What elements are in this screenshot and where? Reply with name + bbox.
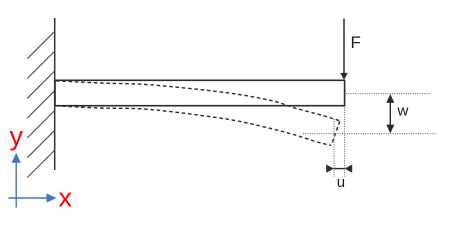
deflected beam bottom edge (dashed curve) xyxy=(56,106,331,146)
wall hatching (7 diagonal ticks) xyxy=(27,31,54,177)
svg-text:y: y xyxy=(10,121,24,151)
dimension w (double-headed vertical arrow) xyxy=(386,94,394,134)
dotted reference line: deflected tip level xyxy=(303,133,437,135)
dotted reference line: undeflected neutral axis extension xyxy=(346,93,431,95)
svg-text:x: x xyxy=(59,183,73,213)
beam (undeflected cantilever rectangle) xyxy=(55,80,345,105)
force arrow F (head) xyxy=(340,73,348,80)
svg-text:F: F xyxy=(351,33,361,52)
deflected beam tip end face (dashed) xyxy=(331,121,340,145)
wall (fixed support vertical line) xyxy=(54,18,56,170)
deflected beam top edge (dashed curve) xyxy=(56,81,340,121)
svg-text:w: w xyxy=(397,103,409,120)
x axis (blue horizontal arrow) xyxy=(8,193,56,202)
dimension u (inward pointing arrows outside gap) xyxy=(326,165,352,173)
svg-text:u: u xyxy=(337,174,345,191)
vertical dotted extension line at deflected tip (x = 334) xyxy=(333,119,335,177)
force arrow F (shaft) xyxy=(343,19,345,75)
y axis (blue vertical arrow) xyxy=(12,153,21,208)
vertical dotted extension line at original tip (x = 344.6) xyxy=(344,108,346,178)
